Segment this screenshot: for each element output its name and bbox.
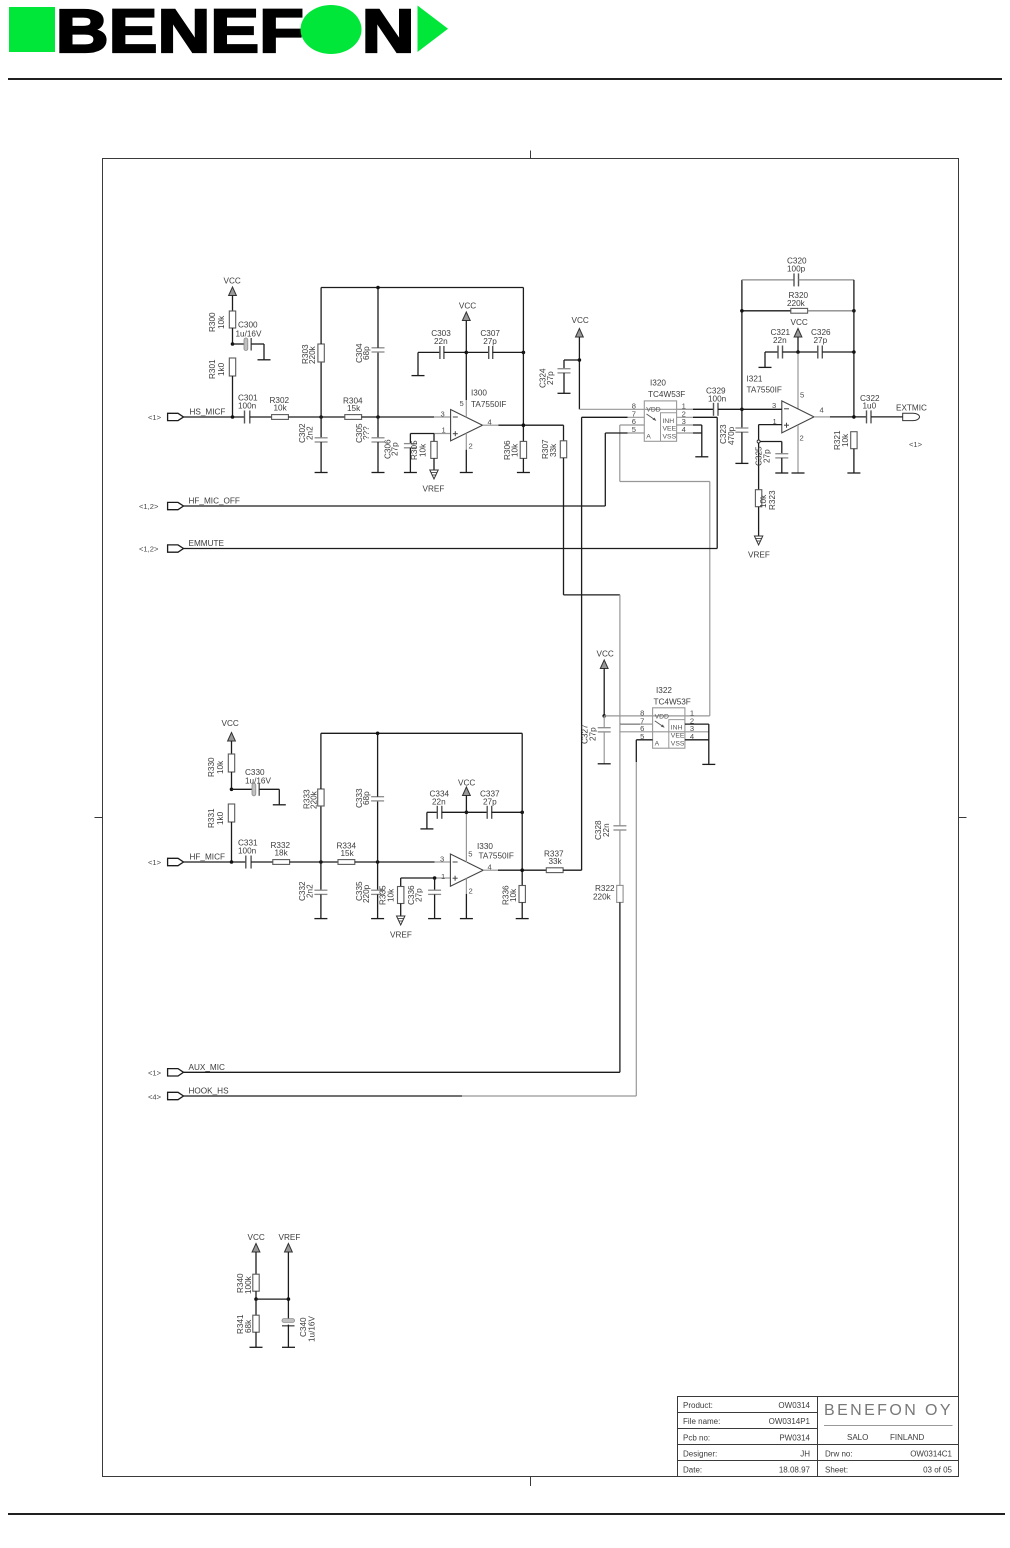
resistor R306 10k — [503, 440, 527, 473]
svg-text:<4>: <4> — [148, 1093, 162, 1102]
svg-text:Pcb no:: Pcb no: — [683, 1434, 710, 1443]
resistor R321 10k — [833, 430, 857, 473]
svg-text:VCC: VCC — [572, 316, 589, 325]
vref symbol (R323) — [748, 536, 770, 560]
capacitor C321 22n — [765, 328, 798, 367]
wire C331 to R332 — [251, 861, 273, 863]
op-amp I300 TA7550IF — [441, 389, 507, 451]
svg-text:PW0314: PW0314 — [779, 1434, 810, 1443]
node R340/R341 — [254, 1297, 258, 1301]
wire R302 to R304 — [288, 416, 344, 418]
capacitor C301 100n — [238, 394, 258, 424]
node VCC/C327/VDD — [602, 714, 606, 718]
svg-text:18k: 18k — [275, 849, 289, 858]
IC I320 TC4W53F — [632, 379, 686, 442]
svg-text:<1>: <1> — [909, 440, 923, 449]
svg-text:22n: 22n — [602, 823, 611, 837]
svg-text:2n2: 2n2 — [306, 884, 315, 898]
svg-text:22n: 22n — [432, 798, 446, 807]
svg-text:N: N — [362, 0, 415, 66]
ground (R306) — [517, 472, 530, 474]
node C304/rail — [376, 286, 380, 290]
svg-text:100k: 100k — [244, 1275, 253, 1294]
svg-text:R331: R331 — [207, 808, 216, 828]
svg-text:15k: 15k — [347, 404, 361, 413]
capacitor C335 220p — [355, 862, 384, 919]
capacitor C324 27p — [539, 360, 580, 393]
resistor R341 68k — [236, 1299, 259, 1347]
svg-text:27p: 27p — [391, 442, 400, 456]
svg-text:I321: I321 — [747, 375, 763, 384]
frame tick left — [95, 817, 103, 819]
node tap/VREF — [287, 1297, 291, 1301]
svg-text:Drw no:: Drw no: — [825, 1450, 853, 1459]
svg-text:OW0314P1: OW0314P1 — [769, 1417, 811, 1426]
capacitor C329 100n — [706, 387, 742, 416]
svg-text:VCC: VCC — [791, 318, 808, 327]
svg-text:C300: C300 — [238, 321, 258, 330]
svg-text:VREF: VREF — [279, 1233, 301, 1242]
port HF_MICF <1> — [148, 853, 225, 868]
ground (C306) — [404, 472, 417, 474]
svg-text:27p: 27p — [546, 371, 555, 385]
svg-text:2: 2 — [469, 887, 473, 896]
wire I300 output — [483, 424, 564, 426]
svg-text:BENEF: BENEF — [56, 0, 304, 66]
capacitor C332 2n2 — [298, 862, 327, 919]
node R301/input wire — [231, 415, 235, 419]
resistor R336 10k — [502, 885, 526, 919]
svg-text:VDD: VDD — [646, 407, 660, 414]
svg-text:I300: I300 — [471, 389, 487, 398]
ground (R321) — [847, 472, 860, 474]
resistor R302 10k — [270, 396, 290, 419]
ground (I330 pin2) — [460, 918, 473, 920]
svg-text:2: 2 — [469, 442, 473, 451]
wire EMMUTE — [184, 548, 718, 550]
node R330/R331/C330 — [230, 788, 234, 792]
wire R337 to I320 pin7 net — [563, 869, 582, 871]
svg-text:100p: 100p — [787, 265, 806, 274]
ground (C302) — [315, 472, 328, 474]
feedback rail bottom amp — [321, 732, 522, 734]
svg-text:FINLAND: FINLAND — [890, 1433, 924, 1442]
svg-text:220p: 220p — [362, 884, 371, 903]
svg-text:1: 1 — [441, 872, 445, 881]
svg-text:A: A — [646, 433, 651, 440]
resistor R307 33k — [541, 425, 567, 595]
wire feedback right vertical (I321) — [853, 280, 855, 417]
svg-text:68p: 68p — [362, 791, 371, 805]
node C337/right rail — [520, 811, 524, 815]
capacitor C306 27p — [384, 434, 417, 473]
node C329/C323/I321 — [740, 408, 744, 412]
top rule — [8, 78, 1002, 80]
ground (R336) — [516, 918, 529, 920]
wire I322 VEE row (gray) — [620, 731, 709, 733]
capacitor C334 22n — [427, 789, 467, 829]
svg-text:10k: 10k — [387, 888, 396, 902]
wire I320 pin3 pin4 to ground — [677, 425, 702, 457]
svg-text:1u0: 1u0 — [863, 402, 877, 411]
svg-text:VREF: VREF — [748, 551, 770, 560]
capacitor C328 22n — [594, 724, 626, 885]
IC I322 TC4W53F — [640, 686, 694, 748]
svg-text:Date:: Date: — [683, 1466, 702, 1475]
node C307/right rail — [522, 351, 526, 355]
svg-text:100n: 100n — [238, 402, 257, 411]
ground (C303) — [412, 375, 425, 377]
power VCC (I320 VDD) — [572, 316, 589, 409]
capacitor C322 1u0 — [860, 394, 903, 423]
svg-text:100n: 100n — [238, 847, 257, 856]
svg-text:470p: 470p — [727, 426, 736, 445]
wire I322 pin5 A to HOOK_HS — [636, 740, 652, 1096]
resistor R304 15k — [343, 397, 363, 420]
node R320 left — [740, 309, 744, 313]
right rail bottom amp — [521, 733, 523, 885]
svg-text:10k: 10k — [216, 760, 225, 774]
svg-text:<1>: <1> — [148, 858, 162, 867]
svg-text:10k: 10k — [509, 888, 518, 902]
title block — [678, 1397, 959, 1477]
svg-text:BENEFON OY: BENEFON OY — [824, 1402, 953, 1419]
wire I321 pin1 — [757, 425, 782, 490]
svg-text:VCC: VCC — [224, 277, 241, 286]
svg-text:<1>: <1> — [148, 413, 162, 422]
node C326/right vertical — [852, 350, 856, 354]
resistor R335 10k — [379, 878, 404, 916]
capacitor C320 100p — [742, 257, 854, 287]
svg-text:2: 2 — [800, 434, 804, 443]
wire I320 pin6 net (gray) — [620, 425, 710, 716]
wire I330 output — [483, 869, 546, 871]
svg-text:68p: 68p — [362, 346, 371, 360]
resistor R337 33k — [544, 850, 564, 873]
svg-text:INH: INH — [671, 725, 683, 732]
wire I322 VDD row (gray) — [604, 715, 710, 717]
resistor R340 100k — [236, 1273, 259, 1299]
resistor R303 220k — [301, 288, 324, 418]
power VCC (I300 pin5) — [459, 302, 476, 418]
svg-text:220k: 220k — [310, 790, 319, 809]
node C303/C307/VCC — [465, 351, 469, 355]
node C333/C335 — [376, 860, 380, 864]
bottom rule — [8, 1513, 1005, 1515]
capacitor C337 27p — [466, 789, 522, 818]
vref symbol (R305) — [423, 470, 445, 494]
svg-text:TA7550IF: TA7550IF — [479, 852, 514, 861]
node R300/R301/C300 — [231, 342, 235, 346]
op-amp I330 TA7550IF — [440, 842, 514, 896]
capacitor C307 27p — [466, 329, 523, 359]
ground (C323) — [735, 462, 748, 464]
svg-text:27p: 27p — [483, 337, 497, 346]
capacitor C325 27p — [755, 442, 789, 474]
resistor R331 1k0 — [207, 804, 235, 862]
resistor R330 10k — [207, 754, 235, 789]
port HOOK_HS <4> — [148, 1087, 229, 1102]
capacitor C323 470p — [719, 409, 748, 463]
svg-text:HS_MICF: HS_MICF — [190, 408, 226, 417]
capacitor C303 22n — [418, 329, 466, 376]
resistor R332 18k — [271, 841, 291, 864]
wire R307 to I322 net — [564, 595, 620, 724]
svg-text:???: ??? — [362, 426, 371, 440]
node R320 right — [852, 309, 856, 313]
logo green square — [9, 7, 55, 52]
svg-text:27p: 27p — [589, 727, 598, 741]
wire I320 pin2 INH to EMMUTE — [677, 417, 718, 548]
svg-text:10k: 10k — [759, 494, 768, 508]
svg-text:1: 1 — [442, 426, 446, 435]
svg-text:1u/16V: 1u/16V — [308, 1316, 317, 1342]
logo text N — [362, 0, 415, 66]
right rail (feedback) — [522, 288, 524, 442]
op-amp I321 TA7550IF — [747, 375, 824, 443]
ground (I300 pin2) — [460, 472, 473, 474]
ground (C321) — [759, 366, 772, 368]
frame tick right — [959, 817, 967, 819]
svg-text:VCC: VCC — [458, 779, 475, 788]
frame tick bottom — [530, 1477, 532, 1487]
svg-text:R323: R323 — [768, 490, 777, 510]
svg-text:3: 3 — [440, 855, 444, 864]
wire R304 to opamp pin3 — [362, 416, 434, 418]
svg-text:TA7550IF: TA7550IF — [471, 400, 506, 409]
logo green triangle — [418, 6, 449, 53]
node R331/input wire — [230, 860, 234, 864]
node R333/C332 — [319, 860, 323, 864]
ground (C335) — [371, 918, 384, 920]
wire I321 output — [814, 416, 867, 418]
wire HF_MIC_OFF — [184, 505, 606, 507]
svg-text:VCC: VCC — [597, 650, 614, 659]
svg-text:27p: 27p — [483, 798, 497, 807]
svg-text:27p: 27p — [415, 888, 424, 902]
node C304/C305 — [376, 415, 380, 419]
ground (C332) — [314, 918, 327, 920]
svg-text:EXTMIC: EXTMIC — [896, 404, 927, 413]
power VCC (divider) — [248, 1233, 265, 1274]
svg-text:<1,2>: <1,2> — [139, 545, 159, 554]
svg-text:220k: 220k — [308, 345, 317, 364]
power VREF (divider) — [279, 1233, 301, 1320]
wire HF_MICF input — [184, 861, 246, 863]
svg-text:VREF: VREF — [423, 485, 445, 494]
ground (I322 pins 2,3,4) — [702, 763, 715, 765]
wire C301 to R302 — [250, 416, 272, 418]
power VCC (R330) — [222, 719, 239, 754]
svg-text:<1,2>: <1,2> — [139, 502, 159, 511]
wire I320 pin5 A to HF_MIC_OFF — [605, 433, 644, 506]
wire divider tap — [256, 1298, 288, 1300]
port EMMUTE <1,2> — [139, 539, 225, 554]
wire C329 node to I321 pin3 — [742, 408, 782, 410]
wire VCC to I320 pin8 — [579, 408, 710, 410]
svg-text:AUX_MIC: AUX_MIC — [189, 1063, 225, 1072]
svg-text:VCC: VCC — [459, 302, 476, 311]
vref symbol (R335) — [390, 916, 412, 940]
svg-text:18.08.97: 18.08.97 — [779, 1466, 811, 1475]
resistor R333 220k — [303, 733, 325, 862]
svg-text:EMMUTE: EMMUTE — [189, 539, 225, 548]
svg-text:22n: 22n — [434, 337, 448, 346]
port EXTMIC — [896, 404, 927, 450]
power VCC (I321 pin5) — [791, 318, 808, 409]
svg-text:SALO: SALO — [847, 1433, 868, 1442]
svg-text:2n2: 2n2 — [306, 426, 315, 440]
ground (C327) — [598, 763, 611, 765]
svg-text:33k: 33k — [549, 443, 558, 457]
svg-text:HF_MICF: HF_MICF — [190, 853, 225, 862]
logo green O ellipse — [301, 5, 362, 54]
svg-text:HF_MIC_OFF: HF_MIC_OFF — [189, 497, 240, 506]
node output/R321 — [852, 415, 856, 419]
resistor R334 15k — [337, 842, 357, 865]
capacitor C305 ??? — [355, 417, 385, 473]
wire opamp pin2 to ground — [465, 878, 467, 918]
logo BENEFON — [9, 0, 448, 66]
feedback rail top — [321, 287, 523, 289]
node R303/C302 — [319, 415, 323, 419]
capacitor C336 27p — [407, 878, 441, 919]
power VCC (I322 VDD) — [597, 650, 614, 716]
svg-text:TC4W53F: TC4W53F — [648, 390, 685, 399]
svg-text:3: 3 — [441, 410, 445, 419]
capacitor C304 68p — [355, 288, 385, 418]
svg-text:220k: 220k — [593, 893, 612, 902]
power VCC (I330 pin5) — [458, 779, 475, 863]
port HF_MIC_OFF <1,2> — [139, 497, 240, 512]
svg-text:VCC: VCC — [248, 1233, 265, 1242]
svg-text:1u/16V: 1u/16V — [236, 330, 262, 339]
svg-text:I322: I322 — [656, 686, 672, 695]
node output/right rail — [522, 423, 526, 427]
ground (R341) — [250, 1346, 263, 1348]
ground (C334) — [420, 828, 433, 830]
ground (C305) — [372, 472, 385, 474]
wire I320 pin1 to C329 — [677, 408, 693, 410]
ground (C340) — [282, 1346, 295, 1348]
svg-text:22n: 22n — [773, 336, 787, 345]
svg-text:HOOK_HS: HOOK_HS — [189, 1087, 230, 1096]
wire opamp pin1 — [410, 433, 434, 435]
wire I322 pins2,3,4 to ground — [685, 724, 709, 764]
svg-text:R300: R300 — [208, 312, 217, 332]
schematic frame border — [103, 159, 959, 1477]
svg-text:OW0314: OW0314 — [778, 1401, 810, 1410]
capacitor C333 68p — [355, 733, 384, 862]
svg-text:VSS: VSS — [671, 740, 685, 747]
svg-text:1u/16V: 1u/16V — [245, 777, 271, 786]
svg-text:TA7550IF: TA7550IF — [747, 386, 782, 395]
capacitor C300 1u/16V — [233, 321, 265, 360]
svg-text:I320: I320 — [650, 379, 666, 388]
node C334/C337/VCC — [465, 811, 469, 815]
frame tick top — [530, 151, 532, 159]
wire feedback left vertical (I321) — [741, 280, 743, 409]
node C336/pin1 — [433, 876, 437, 880]
svg-text:OW0314C1: OW0314C1 — [910, 1450, 952, 1459]
svg-text:VSS: VSS — [663, 433, 677, 440]
port AUX_MIC <1> — [148, 1063, 225, 1078]
resistor R323 10k — [755, 490, 777, 536]
svg-text:1k0: 1k0 — [216, 811, 225, 825]
svg-text:VCC: VCC — [222, 719, 239, 728]
svg-text:5: 5 — [468, 850, 472, 859]
wire I321 pin2 to ground — [797, 425, 799, 473]
svg-text:10k: 10k — [274, 404, 288, 413]
svg-text:10k: 10k — [217, 315, 226, 329]
svg-text:VEE: VEE — [671, 733, 685, 740]
wire R332 to R334 — [290, 861, 338, 863]
port HS_MICF <1> — [148, 408, 225, 423]
svg-text:VEE: VEE — [663, 426, 677, 433]
svg-text:Sheet:: Sheet: — [825, 1466, 848, 1475]
svg-text:VDD: VDD — [655, 713, 669, 720]
svg-text:03 of 05: 03 of 05 — [923, 1466, 952, 1475]
svg-text:220k: 220k — [787, 299, 806, 308]
wire HOOK_HS — [184, 1095, 637, 1097]
svg-text:1k0: 1k0 — [217, 362, 226, 376]
wire R334 to opamp pin3 — [355, 861, 435, 863]
wire I320 pin7 control net — [582, 417, 645, 870]
wire opamp pin2 to ground — [465, 433, 467, 472]
node VCC/C324 — [578, 358, 582, 362]
capacitor C302 2n2 — [298, 417, 328, 473]
capacitor C331 100n — [238, 839, 258, 869]
node output/right rail — [520, 868, 524, 872]
ground (C325) — [775, 472, 788, 474]
svg-text:10k: 10k — [419, 443, 428, 457]
svg-text:R301: R301 — [208, 359, 217, 379]
svg-text:TC4W53F: TC4W53F — [654, 698, 691, 707]
svg-text:5: 5 — [460, 399, 464, 408]
capacitor C330 1u/16V — [232, 768, 280, 805]
node C333/rail — [376, 732, 380, 736]
svg-text:JH: JH — [800, 1450, 810, 1459]
ground (C324) — [558, 392, 571, 394]
svg-text:27p: 27p — [814, 336, 828, 345]
resistor R305 10k — [410, 434, 437, 471]
svg-text:R330: R330 — [207, 757, 216, 777]
capacitor C340 1u/16V — [282, 1316, 317, 1348]
svg-text:4: 4 — [820, 406, 824, 415]
resistor R322 220k — [593, 884, 623, 1072]
svg-text:Product:: Product: — [683, 1401, 713, 1410]
svg-text:10k: 10k — [511, 443, 520, 457]
svg-text:VREF: VREF — [390, 931, 412, 940]
ground (C336) — [428, 918, 441, 920]
svg-text:100n: 100n — [708, 395, 727, 404]
svg-text:I330: I330 — [477, 842, 493, 851]
resistor R320 220k — [742, 291, 854, 313]
ground (C300) — [258, 359, 271, 361]
wire HS_MICF input — [184, 416, 245, 418]
svg-text:A: A — [655, 740, 660, 747]
wire opamp pin1 — [401, 877, 451, 879]
ground (I321 pin2) — [792, 472, 805, 474]
ground (I320 pins 3,4) — [695, 456, 708, 458]
svg-text:68k: 68k — [244, 1319, 253, 1333]
svg-text:10k: 10k — [841, 433, 850, 447]
svg-text:INH: INH — [663, 418, 675, 425]
resistor R300 10k — [208, 311, 236, 344]
capacitor C326 27p — [798, 328, 854, 359]
svg-text:5: 5 — [800, 391, 804, 400]
wire I322 pin7 stub — [620, 723, 640, 725]
